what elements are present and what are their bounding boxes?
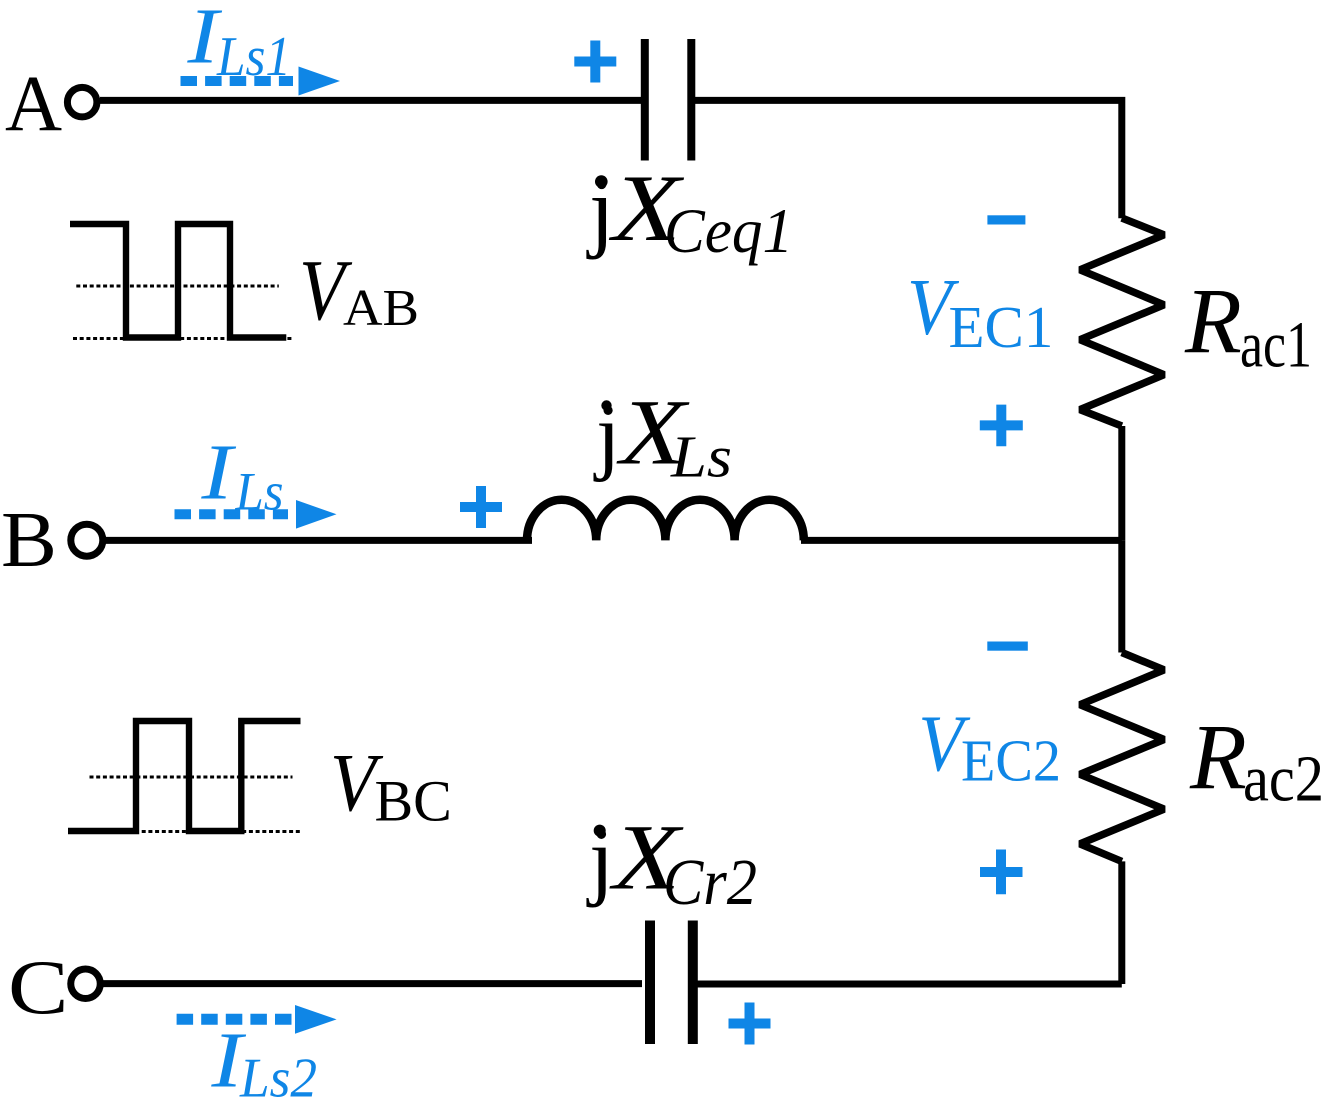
resistor Rac1 [1080, 218, 1164, 426]
svg-text:Ceq1: Ceq1 [664, 196, 793, 266]
current arrow ILs dashes [175, 509, 289, 519]
current arrow ILs head [296, 500, 337, 529]
polarity plus capacitor Cr2 [729, 1003, 771, 1045]
label ILs [200, 430, 283, 522]
label ILs1 [186, 0, 291, 88]
node A terminal circle [67, 87, 97, 117]
label Rac1 [1184, 271, 1312, 382]
svg-text:Cr2: Cr2 [663, 846, 757, 919]
label VEC1 [907, 264, 1053, 360]
svg-text:AB: AB [343, 280, 419, 337]
svg-text:A: A [5, 61, 62, 148]
svg-text:R: R [1184, 271, 1242, 374]
polarity plus capacitor Ceq1 [574, 41, 616, 83]
wire C left segment [103, 980, 642, 987]
capacitor Cr2 plates [650, 921, 693, 1045]
svg-text:BC: BC [375, 768, 452, 833]
polarity minus VEC1 [987, 215, 1025, 224]
label VEC2 [918, 701, 1061, 794]
inductor XLs [527, 500, 804, 541]
svg-text:Ls: Ls [670, 423, 732, 489]
waveform VBC trace [68, 721, 301, 831]
wire Rac2 to C wire [1118, 861, 1125, 984]
svg-text:j: j [586, 159, 614, 260]
node C terminal circle [71, 969, 101, 999]
node B terminal circle [71, 524, 103, 556]
wire junction to Rac2 [1118, 540, 1125, 652]
svg-text:EC2: EC2 [961, 728, 1061, 794]
current arrow ILs1 dashes [181, 76, 294, 86]
polarity minus VEC2 [987, 642, 1028, 651]
wire A right segment and corner down [695, 100, 1122, 218]
label VBC [330, 737, 452, 834]
svg-text:EC1: EC1 [949, 294, 1054, 360]
polarity plus VEC1 [980, 405, 1023, 447]
wire B left segment [104, 537, 532, 544]
polarity plus VEC2 [980, 850, 1023, 895]
waveform VAB trace [70, 224, 286, 338]
svg-text:R: R [1189, 706, 1247, 809]
current arrow ILs2 dashes [177, 1014, 294, 1025]
waveform VBC bottom dotted line [68, 830, 301, 833]
wire A left segment [100, 97, 641, 104]
waveform VAB bottom dotted line [73, 337, 293, 340]
label jXCeq1 [586, 155, 793, 266]
wire C right segment [697, 981, 1122, 988]
label jXCr2 [586, 806, 757, 919]
label Rac2 [1189, 706, 1324, 815]
svg-text:Ls1: Ls1 [216, 26, 291, 88]
svg-text:C: C [8, 944, 69, 1030]
polarity plus inductor XLs [460, 486, 502, 528]
svg-text:ac1: ac1 [1240, 309, 1312, 382]
resistor Rac2 [1080, 653, 1164, 862]
current arrow ILs2 head [295, 1005, 337, 1034]
waveform VBC middle dotted line [90, 776, 293, 779]
wire B right segment [801, 537, 1122, 544]
svg-text:ac2: ac2 [1243, 743, 1324, 816]
label ILs2 [210, 1018, 317, 1106]
capacitor Ceq1 plates [645, 39, 692, 161]
svg-text:I: I [200, 430, 237, 517]
svg-text:j: j [593, 386, 620, 483]
label VAB [299, 241, 419, 338]
svg-text:Ls: Ls [235, 462, 284, 522]
label jXLs [593, 382, 732, 490]
svg-text:Ls2: Ls2 [239, 1048, 317, 1106]
wire Rac1 to node junction [1118, 426, 1125, 540]
svg-text:B: B [1, 497, 57, 584]
waveform VAB middle dotted line [76, 285, 278, 288]
current arrow ILs1 head [299, 67, 341, 96]
